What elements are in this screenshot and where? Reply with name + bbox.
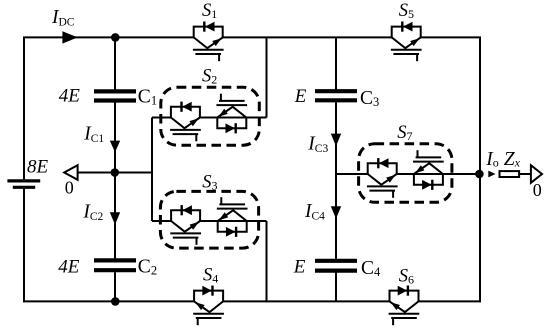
wire C2 leg lower <box>114 272 116 301</box>
wire load to terminal <box>519 173 531 175</box>
svg-text:0: 0 <box>533 180 542 200</box>
wire bottom rail left segment <box>23 300 194 302</box>
transistor S7 right IGBT <box>413 150 444 190</box>
current arrow I_C2 <box>110 212 120 225</box>
switch module S2 box <box>161 87 259 145</box>
wire C3 leg upper <box>335 37 337 89</box>
node output junction <box>475 170 484 179</box>
transistor S3 right IGBT <box>217 197 248 237</box>
svg-text:E: E <box>293 256 306 277</box>
terminal 0 right open arrow <box>531 165 542 183</box>
wire S2 riser to top rail <box>266 37 268 117</box>
wire S3 left stub <box>152 220 171 222</box>
terminal 0 left open arrow <box>64 165 77 180</box>
current arrow I_C4 <box>331 206 341 219</box>
current arrow I_o <box>488 171 495 178</box>
wire C1 leg lower <box>114 102 116 172</box>
wire S3 dropper to bottom rail <box>266 221 268 302</box>
switch module S3 box <box>160 191 258 248</box>
load Z_x <box>500 171 520 177</box>
wire S3 right exit <box>200 220 266 222</box>
wire bottom rail right segment <box>419 300 481 302</box>
svg-text:8E: 8E <box>27 157 49 178</box>
current arrow I_DC <box>62 31 77 43</box>
svg-text:0: 0 <box>65 178 74 198</box>
transistor S7 left IGBT <box>367 158 398 198</box>
wire top rail left segment <box>23 36 194 38</box>
transistor S4 <box>193 286 224 326</box>
wire bottom rail middle segment <box>223 300 389 302</box>
wire C4 leg lower <box>335 273 337 302</box>
wire S7 left stub <box>336 173 368 175</box>
transistor S6 <box>389 286 420 326</box>
capacitor C3 <box>315 91 357 100</box>
svg-text:E: E <box>294 86 307 107</box>
wire node 0 row <box>77 172 152 174</box>
transistor S2 left IGBT <box>170 102 201 142</box>
wire left rail lower <box>23 188 25 302</box>
node mid-left junction (0 level) <box>111 168 120 177</box>
wire C4 leg upper <box>335 174 337 259</box>
wire right output bus <box>479 37 481 303</box>
node top-left junction <box>111 33 120 42</box>
transistor S1 <box>193 22 224 62</box>
wire S2 right exit <box>200 117 267 119</box>
svg-text:4E: 4E <box>59 85 81 106</box>
wire S2-S3 left connector <box>151 118 153 222</box>
capacitor C1 <box>94 91 136 100</box>
transistor S5 <box>391 22 422 62</box>
node bottom-left junction <box>111 297 120 306</box>
current arrow I_C3 <box>331 134 341 147</box>
wire C3 leg lower <box>335 102 337 174</box>
switch module S7 box <box>359 144 452 203</box>
current arrow I_C1 <box>110 141 120 153</box>
capacitor C2 <box>94 260 136 270</box>
wire C1 leg upper <box>114 37 116 89</box>
transistor S3 left IGBT <box>170 205 201 245</box>
transistor S2 right IGBT <box>216 94 247 134</box>
capacitor C4 <box>315 261 357 271</box>
wire S2 left stub <box>152 117 171 119</box>
battery E (8E source) <box>7 181 40 187</box>
wire S7 right exit <box>397 173 480 175</box>
wire C2 leg upper <box>114 173 116 259</box>
wire left rail upper <box>23 37 25 180</box>
wire top rail right segment <box>421 36 481 38</box>
svg-text:4E: 4E <box>58 257 80 278</box>
wire top rail middle segment <box>223 36 392 38</box>
